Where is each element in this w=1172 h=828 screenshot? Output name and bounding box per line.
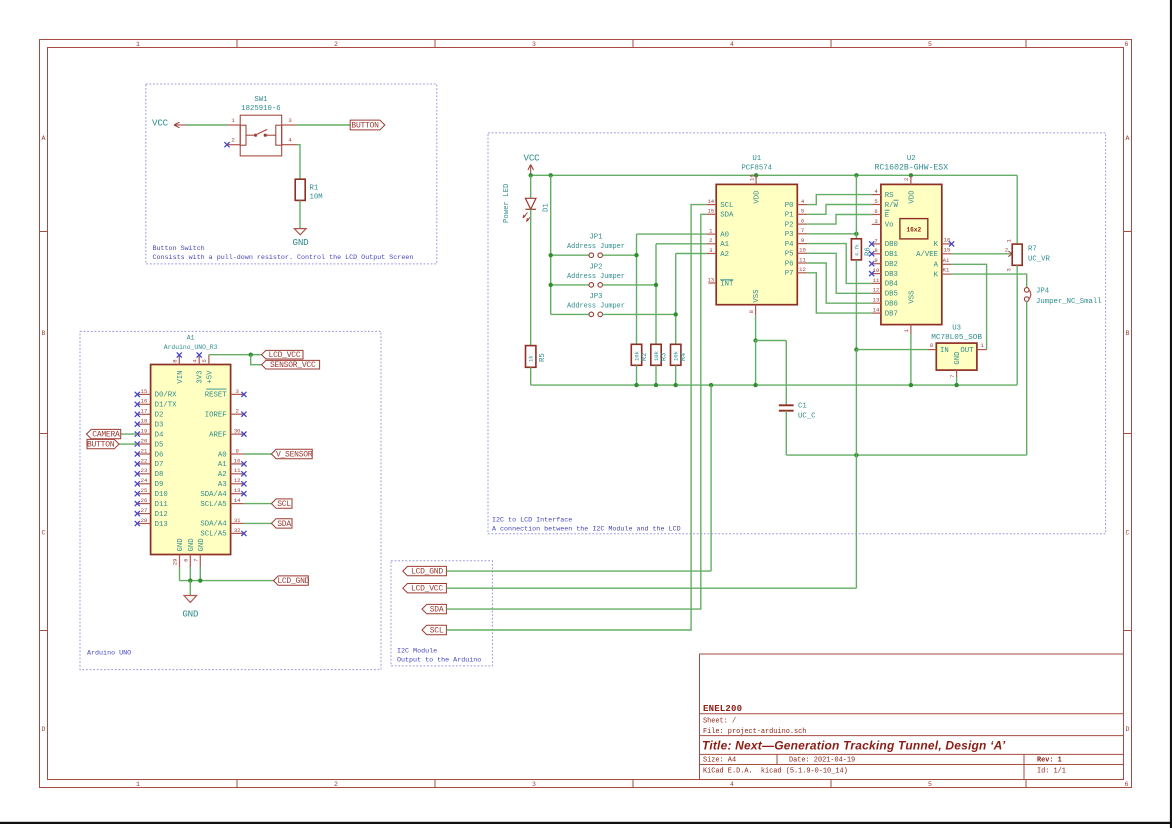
svg-text:GND: GND — [177, 538, 185, 552]
junction LCD_GND riser at rail — [709, 383, 713, 387]
U2 pin A1 A (right) — [942, 263, 952, 265]
wire R5 to VSS rail — [530, 367, 532, 385]
U1 pin 4 P0 (right) — [797, 204, 807, 206]
junction VCC at R6 column — [854, 173, 858, 177]
svg-text:1: 1 — [709, 228, 713, 235]
junction JP1 right — [634, 253, 638, 257]
svg-text:Size: A4: Size: A4 — [703, 757, 736, 765]
wire down to GND symbol — [189, 581, 191, 596]
A1 pin 32 SCL/A5 (right) — [231, 532, 244, 534]
svg-text:3: 3 — [532, 781, 536, 788]
U1 pin 8 VSS (bottom) — [755, 305, 757, 315]
wire U1 P2 to U2 E — [807, 215, 872, 225]
U2 pin 7 DB0 (left) — [872, 243, 881, 245]
A1 pin 31 SDA/A4 (right) — [231, 522, 244, 524]
U1 pin 12 P7 (right) — [797, 272, 807, 274]
A1 pin 26 D11 (left) — [137, 503, 150, 505]
svg-text:DB1: DB1 — [885, 251, 899, 259]
wire VCC bus corner down to R7 — [1016, 175, 1018, 244]
wire R6 column down to 455 rail — [855, 350, 857, 456]
svg-text:DB2: DB2 — [885, 261, 898, 269]
svg-text:A0: A0 — [218, 451, 227, 459]
U3 pin 8 IN (left) — [928, 349, 936, 351]
svg-text:7: 7 — [949, 375, 956, 378]
svg-text:10M: 10M — [310, 194, 323, 202]
svg-text:CAMERA: CAMERA — [92, 431, 120, 440]
no-connect on D13 — [135, 521, 140, 526]
wire VCC down to jumpers — [550, 175, 552, 314]
svg-text:14: 14 — [234, 497, 241, 504]
wire GND rail to LCD_GND label — [180, 580, 274, 582]
no-connect on pin 12 — [241, 481, 246, 486]
svg-text:13: 13 — [234, 487, 241, 494]
svg-text:4: 4 — [288, 137, 292, 144]
wire JP2 riser down to pull-down resistor — [655, 285, 657, 344]
svg-text:2: 2 — [903, 178, 910, 181]
svg-text:4: 4 — [874, 188, 878, 195]
svg-text:15: 15 — [944, 246, 951, 253]
svg-text:A1: A1 — [943, 257, 950, 264]
wire GND pin 6 down — [189, 567, 191, 581]
junction U3 GND at rail — [954, 383, 958, 387]
svg-text:Id: 1/1: Id: 1/1 — [1037, 768, 1066, 776]
A1 pin 16 D1/TX (left) — [137, 403, 150, 405]
svg-text:A connection between the I2C M: A connection between the I2C Module and … — [492, 526, 681, 534]
global label CAMERA — [87, 429, 121, 438]
resistor R2 — [631, 344, 641, 365]
wire A0 to V_SENSOR label — [244, 453, 272, 455]
no-connect on D9 — [135, 481, 140, 486]
wire U1 P5 to U2 DB5 — [807, 253, 872, 293]
svg-text:VSS: VSS — [908, 290, 916, 304]
jumper JP2 open contacts — [589, 283, 594, 288]
svg-text:DB5: DB5 — [885, 291, 898, 299]
svg-text:2: 2 — [709, 237, 712, 244]
U2 pin 11 DB4 (left) — [872, 282, 881, 284]
no-connect on D4 — [135, 432, 140, 437]
svg-text:AREF: AREF — [209, 431, 227, 439]
svg-text:JP1: JP1 — [589, 234, 603, 242]
svg-text:23: 23 — [141, 467, 148, 474]
junction R6 column at U3 IN — [854, 347, 858, 351]
IC U2 body — [881, 184, 942, 324]
wire U2 A/VEE to R7 pin 2 — [952, 253, 1012, 255]
svg-text:6: 6 — [182, 559, 189, 562]
junction GND rail 2 — [198, 578, 202, 582]
U2 pin 9 DB2 (left) — [872, 263, 881, 265]
svg-text:VDD: VDD — [908, 190, 916, 204]
resistor R3 — [651, 344, 661, 365]
svg-text:D12: D12 — [155, 511, 168, 519]
wire SDA to U1 SDA — [446, 214, 706, 609]
U2 pin 15 A/VEE (right) — [942, 253, 952, 255]
wire JP3 riser down to pull-down resistor — [675, 314, 677, 344]
A1 pin 23 D8 (left) — [137, 473, 150, 475]
global label BUTTON (arduino input) — [87, 439, 119, 448]
junction at VCC column on 455 rail — [854, 453, 858, 457]
junction JP2 at VCC column — [549, 283, 553, 287]
svg-text:Consists with a pull-down resi: Consists with a pull-down resistor. Cont… — [153, 254, 414, 262]
no-connect on D0/RX — [135, 392, 140, 397]
svg-text:D3: D3 — [155, 422, 164, 430]
wire SCL to U1 SCL — [446, 205, 706, 630]
junction R2 at VSS rail — [634, 383, 638, 387]
svg-text:A2: A2 — [218, 471, 227, 479]
wire C1 bottom down — [785, 411, 787, 455]
svg-text:3: 3 — [709, 247, 712, 254]
svg-text:D11: D11 — [155, 501, 169, 509]
svg-text:P3: P3 — [785, 231, 794, 239]
svg-text:JP4: JP4 — [1036, 288, 1050, 296]
A1 pin 29 GND (bottom) — [179, 555, 181, 568]
svg-text:DB3: DB3 — [885, 271, 898, 279]
no-connect on D3 — [135, 422, 140, 427]
svg-text:28: 28 — [141, 517, 148, 524]
wire JP1 to riser — [603, 254, 637, 256]
svg-text:9: 9 — [236, 447, 239, 454]
svg-text:R5: R5 — [539, 353, 547, 362]
wire pin 14 to SCL label — [244, 503, 272, 505]
wire GND pin 7 down — [199, 567, 201, 581]
svg-text:D13: D13 — [155, 521, 168, 529]
U2 pin 4 RS (left) — [872, 194, 881, 196]
svg-text:8: 8 — [930, 342, 933, 349]
junction R4 at VSS rail — [674, 383, 678, 387]
A1 pin 9 A0 (right) — [231, 453, 244, 455]
svg-text:10k: 10k — [653, 350, 660, 361]
button switch section dashed box — [146, 84, 437, 264]
svg-text:RC1602B-GHW-ESX: RC1602B-GHW-ESX — [874, 164, 948, 173]
svg-text:D8: D8 — [155, 471, 164, 479]
svg-text:1825910-6: 1825910-6 — [241, 105, 280, 113]
svg-text:10: 10 — [799, 247, 806, 254]
U2 pin 2 VDD (top) — [910, 175, 912, 184]
overline on U2 R/W W — [894, 199, 899, 201]
A1 pin 20 D5 (left) — [137, 443, 150, 445]
no-connect on pin 13 — [241, 491, 246, 496]
no-connect on VIN — [177, 352, 182, 357]
svg-text:5: 5 — [928, 781, 932, 788]
wire R6 down to U3 IN — [855, 260, 857, 350]
no-connect on 3V3 — [197, 352, 202, 357]
U1 pin 15 SDA (left) — [706, 213, 716, 215]
wire LCD_GND riser up to VSS rail — [710, 385, 712, 571]
wire U2 VSS to rail — [910, 334, 912, 385]
no-connect on SW1 pin 2 — [224, 142, 229, 147]
switch SW1 pin 4 — [282, 144, 297, 146]
A1 pin 10 A1 (right) — [231, 463, 244, 465]
svg-text:C: C — [42, 530, 46, 537]
no-connect on U2 DB1 — [869, 251, 874, 256]
wire U1 VSS down — [755, 315, 757, 341]
svg-text:K1: K1 — [943, 267, 950, 274]
A1 pin 15 D0/RX (left) — [137, 393, 150, 395]
svg-text:LCD_GND: LCD_GND — [277, 577, 309, 586]
svg-text:20: 20 — [141, 437, 148, 444]
svg-text:Rev: 1: Rev: 1 — [1037, 757, 1062, 765]
svg-text:7: 7 — [874, 237, 877, 244]
A1 pin 27 D12 (left) — [137, 513, 150, 515]
svg-text:16: 16 — [141, 398, 148, 405]
junction JP3 right — [674, 312, 678, 316]
svg-text:SDA: SDA — [430, 606, 444, 615]
svg-text:A1: A1 — [720, 241, 729, 249]
svg-text:E: E — [885, 212, 889, 220]
overline on RESET — [206, 388, 226, 390]
no-connect on pin 3 — [241, 392, 246, 397]
global label V_SENSOR — [271, 449, 312, 458]
A1 pin 4 3V3 (top) — [198, 355, 200, 365]
U1 pin 5 P1 (right) — [797, 213, 807, 215]
svg-text:UC_C: UC_C — [798, 413, 816, 421]
wire LCD_GND to rail riser — [446, 570, 711, 572]
svg-text:3: 3 — [236, 388, 239, 395]
svg-text:Vo: Vo — [885, 222, 894, 230]
svg-text:A2: A2 — [720, 251, 729, 259]
no-connect on D1/TX — [135, 402, 140, 407]
A1 pin 3 RESET (right) — [231, 393, 244, 395]
A1 pin 5 +5V (top) — [208, 355, 210, 365]
svg-text:P1: P1 — [785, 212, 794, 220]
A1 pin 28 D13 (left) — [137, 523, 150, 525]
svg-text:4: 4 — [191, 359, 198, 363]
svg-text:1: 1 — [1006, 239, 1013, 243]
global label SDA (module) — [422, 604, 446, 613]
svg-text:File: project-arduino.sch: File: project-arduino.sch — [703, 728, 806, 736]
A1 pin 12 A3 (right) — [231, 483, 244, 485]
svg-text:12: 12 — [234, 477, 241, 484]
wire VSS branch to C1 — [756, 340, 787, 342]
svg-text:Output to the Arduino: Output to the Arduino — [397, 657, 481, 665]
svg-text:1: 1 — [136, 781, 140, 788]
svg-text:K: K — [934, 241, 939, 249]
U1 pin 6 P2 (right) — [797, 223, 807, 225]
svg-text:15: 15 — [707, 208, 714, 215]
A1 pin 30 AREF (right) — [231, 433, 244, 435]
U3 pin 7 GND (bottom) — [956, 370, 958, 377]
svg-text:I2C to LCD Interface: I2C to LCD Interface — [492, 517, 572, 525]
svg-text:A: A — [934, 262, 939, 270]
svg-text:KiCad E.D.A. kicad (5.1.9-0-1: KiCad E.D.A. kicad (5.1.9-0-10_14) — [703, 768, 848, 776]
svg-text:3: 3 — [288, 117, 291, 124]
svg-text:1: 1 — [903, 328, 910, 332]
svg-text:BUTTON: BUTTON — [351, 121, 379, 130]
U2 pin 13 DB6 (left) — [872, 302, 881, 304]
svg-text:SDA/A4: SDA/A4 — [200, 491, 227, 499]
junction VCC at D1 — [529, 173, 533, 177]
svg-text:PCF8574: PCF8574 — [741, 165, 772, 173]
no-connect on U2 DB3 — [869, 271, 874, 276]
svg-text:DB4: DB4 — [885, 281, 899, 289]
svg-text:C1: C1 — [798, 403, 807, 411]
junction JP2 right — [654, 283, 658, 287]
U2 pin 14 DB7 (left) — [872, 312, 881, 314]
svg-text:4: 4 — [801, 198, 805, 205]
overline on INT — [720, 279, 733, 281]
no-connect on D5 — [135, 441, 140, 446]
svg-text:1: 1 — [231, 117, 235, 124]
svg-text:8: 8 — [874, 247, 877, 254]
wire U2 A to U3 OUT riser — [952, 264, 987, 349]
no-connect on D7 — [135, 461, 140, 466]
svg-text:17: 17 — [141, 408, 148, 415]
resistor R1 — [295, 179, 305, 200]
svg-text:R1: R1 — [310, 184, 319, 192]
wire U1 P1 to U2 R/W — [807, 205, 872, 215]
wire JP4 down to 455 rail — [1026, 301, 1028, 455]
svg-text:1: 1 — [136, 41, 140, 48]
U2 pin K1 K (right) — [942, 273, 952, 275]
switch SW1 body — [240, 115, 282, 156]
svg-text:A1: A1 — [187, 335, 195, 342]
wire JP1 riser down to pull-down resistor — [636, 255, 638, 344]
svg-text:SCL: SCL — [720, 202, 733, 210]
U2 pin 1 VSS (bottom) — [910, 325, 912, 334]
svg-text:2: 2 — [334, 41, 338, 48]
svg-text:R4: R4 — [680, 353, 688, 361]
U2 pin 10 DB3 (left) — [872, 273, 881, 275]
svg-text:D10: D10 — [155, 491, 168, 499]
ground symbol GND (arduino) — [184, 596, 197, 603]
svg-text:I2C Module: I2C Module — [397, 648, 437, 656]
svg-text:8: 8 — [748, 310, 755, 313]
resistor R4 — [671, 344, 681, 365]
U1 pin 13 INT (left) — [709, 282, 717, 284]
svg-text:Date: 2021-04-19: Date: 2021-04-19 — [789, 757, 855, 765]
svg-text:A1: A1 — [218, 461, 227, 469]
svg-text:R2: R2 — [641, 353, 649, 361]
no-connect on D11 — [135, 501, 140, 506]
svg-text:5: 5 — [874, 198, 877, 205]
svg-text:1k: 1k — [528, 355, 535, 362]
wire U1 P4 to U2 DB4 — [807, 244, 872, 284]
svg-text:D6: D6 — [155, 451, 164, 459]
svg-text:JP2: JP2 — [589, 263, 602, 271]
global label LCD_GND (arduino) — [274, 576, 309, 585]
svg-text:A0: A0 — [720, 231, 729, 239]
IC U1 body — [716, 184, 797, 304]
i2c module section dashed box — [391, 561, 492, 666]
svg-text:R7: R7 — [1028, 246, 1037, 254]
svg-text:24: 24 — [141, 477, 148, 484]
resistor R7 (trimmer) — [1012, 244, 1022, 265]
svg-text:2: 2 — [236, 408, 239, 415]
svg-text:P6: P6 — [785, 260, 794, 268]
jumper JP1 open contacts — [589, 253, 594, 258]
svg-text:VDD: VDD — [754, 190, 762, 204]
A1 pin 25 D10 (left) — [137, 493, 150, 495]
svg-text:3: 3 — [532, 41, 536, 48]
wire R1 to GND — [299, 200, 301, 228]
wire C1 bottom rail to JP4 column — [786, 454, 1026, 456]
svg-text:LCD_VCC: LCD_VCC — [269, 351, 301, 360]
resistor R6 — [851, 239, 861, 260]
U2 pin 8 DB1 (left) — [872, 253, 881, 255]
global label LCD_VCC (module) — [403, 584, 447, 593]
svg-text:15: 15 — [141, 388, 148, 395]
svg-text:ENEL200: ENEL200 — [703, 704, 742, 714]
no-connect on D10 — [135, 491, 140, 496]
junction R3 at VSS rail — [654, 383, 658, 387]
wire U3 GND to rail — [956, 377, 958, 385]
svg-text:13: 13 — [873, 297, 880, 304]
switch SW1 pin 1 — [227, 124, 240, 126]
svg-text:A/VEE: A/VEE — [916, 251, 938, 259]
A1 pin 17 D2 (left) — [137, 413, 150, 415]
U1 pin 9 P4 (right) — [797, 243, 807, 245]
wire JP2 riser up to U1 — [655, 244, 657, 285]
svg-text:2: 2 — [1005, 247, 1008, 254]
svg-text:K: K — [934, 271, 939, 279]
svg-text:DB0: DB0 — [885, 241, 898, 249]
svg-text:22: 22 — [141, 457, 148, 464]
no-connect on D2 — [135, 412, 140, 417]
no-connect on pin 10 — [241, 461, 246, 466]
wire JP3 to riser — [603, 313, 676, 315]
i2c interface section dashed box — [488, 133, 1106, 534]
U1 pin 3 A2 (left) — [706, 253, 716, 255]
svg-text:10: 10 — [234, 457, 241, 464]
wire U1 VSS to VSS rail — [755, 341, 757, 386]
wire JP3 riser up to U1 — [675, 254, 677, 315]
A1 pin 14 SCL/A5 (right) — [231, 503, 244, 505]
resistor R5 — [526, 346, 536, 368]
svg-text:SCL: SCL — [277, 500, 291, 509]
svg-text:13: 13 — [707, 276, 714, 283]
window edge right black line — [1170, 0, 1172, 828]
switch SW1 contacts and lever — [254, 134, 257, 137]
svg-text:VCC: VCC — [152, 117, 169, 128]
svg-text:27: 27 — [141, 507, 148, 514]
U2 pin 3 Vo (left) — [872, 223, 881, 225]
svg-text:U1: U1 — [752, 155, 761, 163]
svg-text:Address Jumper: Address Jumper — [567, 273, 625, 281]
svg-text:32: 32 — [234, 527, 241, 534]
svg-text:A: A — [42, 135, 46, 142]
svg-text:29: 29 — [172, 559, 179, 566]
switch SW1 pin 2 — [227, 144, 240, 146]
junction at +5V branch — [249, 353, 253, 357]
svg-text:P5: P5 — [785, 251, 794, 259]
svg-text:11: 11 — [873, 277, 880, 284]
window edge bottom black line — [0, 822, 1172, 824]
wire VCC column down to R6 — [855, 175, 857, 239]
U1 pin 14 SCL (left) — [706, 204, 716, 206]
U1 pin 11 P6 (right) — [797, 262, 807, 264]
U2 pin 12 DB5 (left) — [872, 292, 881, 294]
svg-text:A: A — [1126, 135, 1130, 142]
capacitor C1 — [779, 404, 794, 406]
A1 pin 6 GND (bottom) — [189, 555, 191, 568]
svg-text:1: 1 — [980, 342, 984, 349]
svg-text:D5: D5 — [155, 441, 164, 449]
no-connect on pin 30 — [241, 432, 246, 437]
svg-text:JP3: JP3 — [589, 293, 602, 301]
no-connect on D8 — [135, 471, 140, 476]
svg-text:LCD_VCC: LCD_VCC — [411, 585, 443, 594]
svg-text:SENSOR_VCC: SENSOR_VCC — [270, 361, 316, 370]
svg-text:21: 21 — [141, 447, 148, 454]
svg-text:SDA/A4: SDA/A4 — [200, 521, 227, 529]
svg-text:16x2: 16x2 — [906, 227, 921, 234]
global label SENSOR_VCC (arduino) — [262, 360, 320, 369]
svg-text:P4: P4 — [785, 241, 794, 249]
A1 pin 13 SDA/A4 (right) — [231, 493, 244, 495]
wire branch down to SENSOR_VCC — [251, 355, 262, 365]
wire BUTTON label to pin D5 — [119, 443, 137, 445]
svg-text:3V3: 3V3 — [197, 370, 205, 383]
svg-text:U2: U2 — [907, 155, 916, 163]
